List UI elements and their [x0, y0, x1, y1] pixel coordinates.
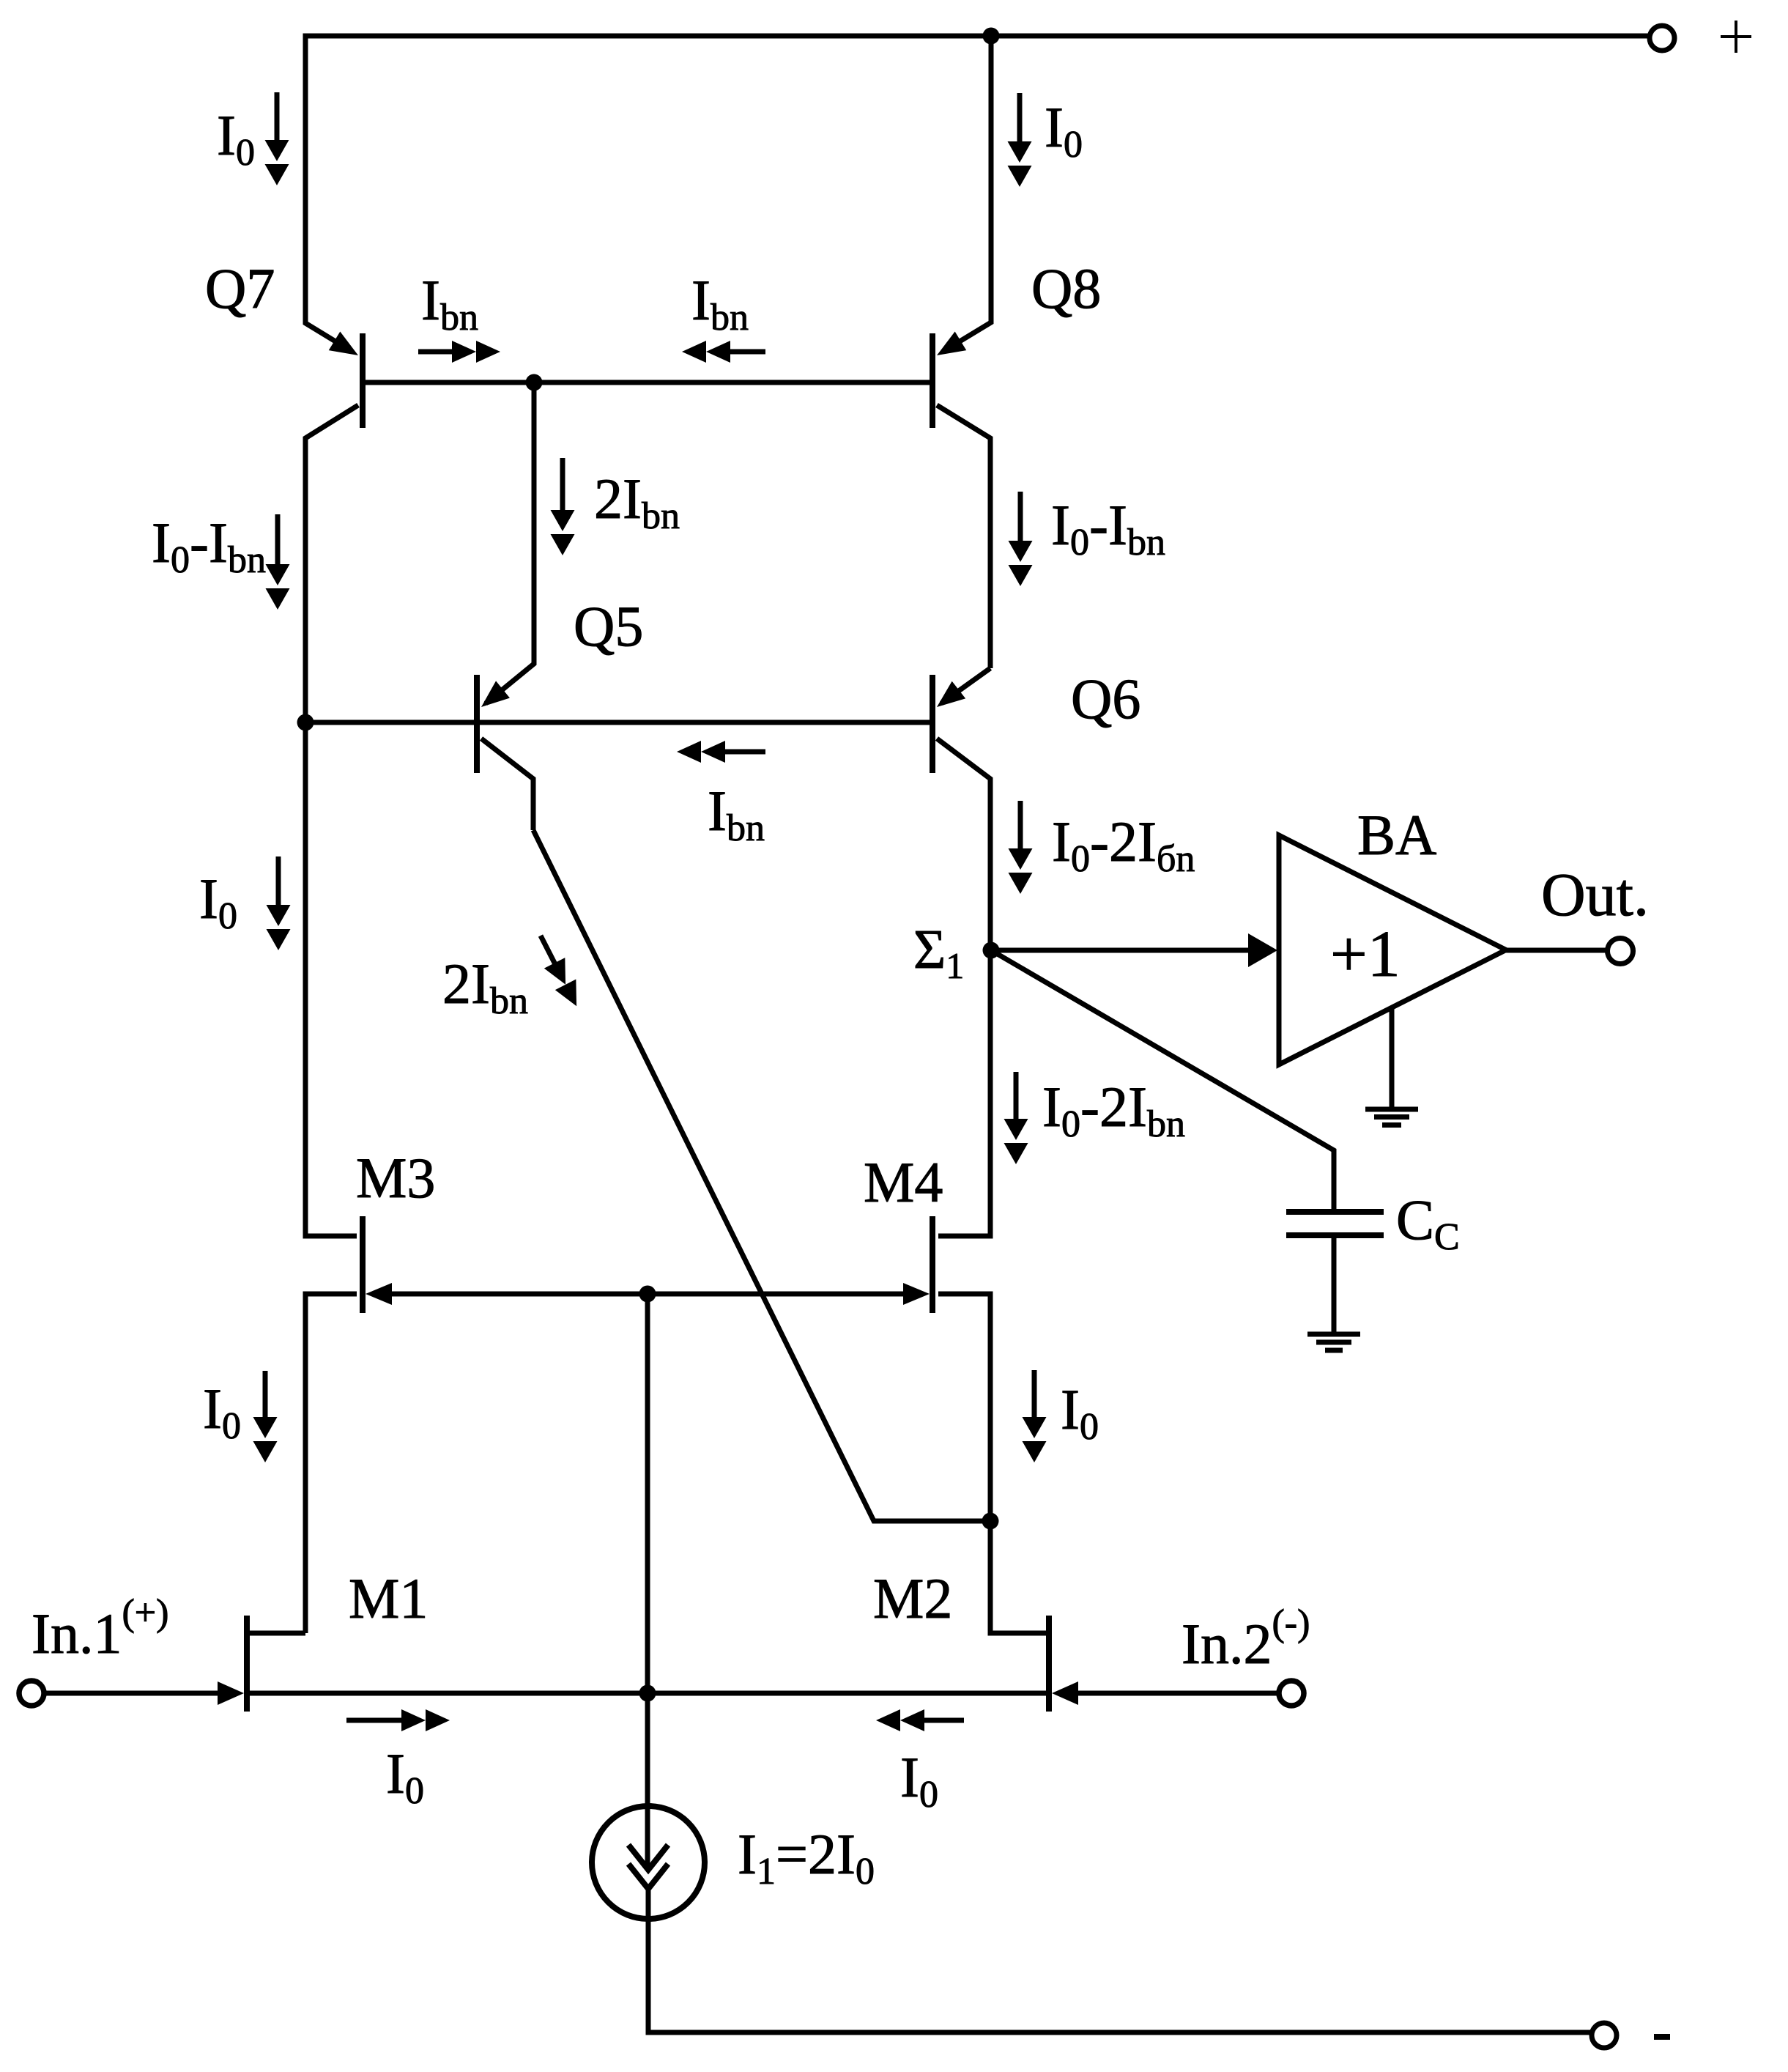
transistor M3: [360, 1216, 366, 1313]
svg-text:Q5: Q5: [574, 594, 643, 658]
arrow I0-2Ibn above Sigma1: [1018, 801, 1023, 854]
wire Q6 collector: [937, 739, 990, 950]
wire Q8 collector: [937, 405, 990, 668]
arrow I0 M1 source: [346, 1718, 407, 1723]
svg-text:In.2(-)​: In.2(-)​: [1182, 1602, 1310, 1676]
terminal In.1: [19, 1681, 44, 1706]
wire Q7 collector: [305, 405, 358, 722]
arrow Ibn base Q7: [418, 349, 458, 355]
arrow I0 above M1: [263, 1371, 268, 1422]
svg-text:I0​-2Iбn​: I0​-2Iбn​: [1052, 810, 1195, 880]
wire Q5 collector diagonal to M2 drain: [533, 830, 990, 1521]
transistor M2: [1046, 1616, 1052, 1712]
node M4 source / Q5 collector junction: [982, 1513, 999, 1530]
current source chevron 2: [628, 1864, 668, 1889]
wire M1 drain lead: [250, 1631, 305, 1636]
arrow I0-Ibn left: [275, 514, 281, 569]
svg-text:I1​=2I0​: I1​=2I0​: [738, 1822, 875, 1892]
node top-rail junction: [983, 28, 1000, 45]
svg-text:M4: M4: [864, 1150, 943, 1214]
svg-text:I0​: I0​: [199, 867, 237, 937]
svg-text:I0​: I0​: [1061, 1377, 1099, 1448]
arrow I0-2Ibn below Sigma1: [1014, 1072, 1019, 1124]
svg-text:Out.: Out.: [1541, 861, 1649, 929]
svg-text:I0​: I0​: [203, 1377, 241, 1447]
svg-text:Ibn​: Ibn​: [421, 268, 478, 338]
wire M4 source to M2 drain: [990, 1521, 1046, 1633]
wire buffer output: [1506, 948, 1609, 953]
svg-text:I0​: I0​: [900, 1745, 938, 1816]
node 2Ibn branch junction: [526, 374, 543, 391]
svg-text:In.1(+)​: In.1(+)​: [31, 1592, 168, 1665]
wire M1 source to M2 source: [250, 1691, 1050, 1696]
wire M4 source lead: [938, 1294, 990, 1521]
wire M3/M4 gate line: [392, 1292, 903, 1297]
svg-text:M3: M3: [356, 1146, 435, 1210]
wire Q5 collector: [481, 739, 533, 830]
arrow I0 above M3: [276, 856, 281, 910]
svg-text:I0​-Ibn​: I0​-Ibn​: [152, 511, 266, 581]
svg-text:I0​: I0​: [386, 1742, 424, 1812]
ground below C_C: [1332, 1238, 1337, 1334]
wire Q5 emitter branch: [486, 382, 534, 703]
svg-text:2Ibn​: 2Ibn​: [442, 952, 528, 1022]
svg-text:M2: M2: [873, 1566, 952, 1630]
wire M3 drain from base line: [305, 722, 357, 1236]
current source I1 circle: [592, 1806, 705, 1919]
arrow 2Ibn along diagonal: [530, 930, 587, 1012]
transistor Q8: [930, 333, 935, 428]
wire Sigma1 to compensation cap: [991, 950, 1334, 1212]
svg-text:I0​-Ibn​: I0​-Ibn​: [1051, 493, 1165, 563]
svg-text:BA: BA: [1357, 803, 1436, 867]
node tail current junction: [639, 1685, 656, 1702]
transistor Q7: [360, 333, 366, 428]
wire Q5/Q6 base line: [305, 720, 932, 725]
terminal Out.: [1608, 939, 1633, 964]
wire Q8 emitter from + rail: [943, 34, 991, 352]
svg-text:I0​: I0​: [217, 103, 255, 174]
terminal In.2: [1279, 1681, 1304, 1706]
arrow I0 above M2: [1032, 1370, 1037, 1422]
label - supply: [1654, 2034, 1670, 2040]
svg-text:Ibn​: Ibn​: [708, 779, 765, 849]
arrow I0-Ibn right: [1018, 492, 1023, 546]
wire Q7/Q8 base line: [363, 380, 932, 385]
node gate line junction: [639, 1286, 656, 1303]
wire M3 source lead: [305, 1294, 357, 1633]
label + supply: [1721, 35, 1751, 38]
wire Sigma1 to buffer input with arrow: [994, 948, 1254, 953]
current source arrow shaft: [645, 1693, 650, 1868]
transistor Q6: [930, 675, 935, 773]
wire In.2 input to M2 gate: [1078, 1691, 1277, 1696]
transistor M1: [244, 1616, 250, 1712]
capacitor C_C: [1286, 1209, 1384, 1215]
svg-text:Q8: Q8: [1031, 256, 1101, 320]
wire + supply top rail: [305, 34, 1650, 39]
wire In.1 input to M1 gate: [44, 1691, 219, 1696]
svg-text:CC​: CC​: [1396, 1188, 1460, 1258]
wire cap to ground: [1332, 1238, 1337, 1334]
op-amp U1 buffer BA +1: [1279, 835, 1506, 1065]
node Q7-collector to base-line junction: [297, 714, 314, 731]
svg-text:2Ibn​: 2Ibn​: [594, 467, 680, 537]
arrow I0 M2 source: [919, 1718, 964, 1723]
wire Q7 emitter from + rail: [305, 34, 352, 352]
terminal + supply: [1650, 26, 1674, 51]
wire tail to - rail: [648, 1889, 1592, 2032]
wire Sigma1 to M4 drain: [938, 950, 990, 1236]
svg-text:+1: +1: [1330, 918, 1401, 991]
wire Q6 emitter: [941, 668, 990, 703]
wire gate junction to tail node: [645, 1294, 650, 1693]
arrow I0 into Q8: [1017, 93, 1023, 147]
svg-text:Ibn​: Ibn​: [691, 268, 749, 338]
svg-text:Q7: Q7: [205, 256, 275, 320]
arrow Ibn base Q5/Q6: [719, 750, 765, 755]
arrow Ibn base Q8: [724, 349, 765, 355]
arrow 2Ibn branch: [560, 458, 565, 515]
current source chevron 1: [628, 1845, 668, 1870]
svg-text:Q6: Q6: [1071, 667, 1140, 730]
ground buffer BA: [1390, 1007, 1395, 1109]
transistor M4: [930, 1216, 935, 1313]
arrow I0 into Q7: [275, 92, 280, 145]
svg-text:I0​: I0​: [1045, 95, 1083, 166]
transistor Q5: [474, 675, 480, 773]
node Sigma1 summing node: [983, 942, 1000, 959]
svg-text:I0​-2Ibn​: I0​-2Ibn​: [1042, 1075, 1185, 1145]
svg-text:Σ1​: Σ1​: [913, 919, 964, 986]
svg-text:M1: M1: [349, 1566, 428, 1630]
terminal - supply: [1592, 2023, 1617, 2048]
